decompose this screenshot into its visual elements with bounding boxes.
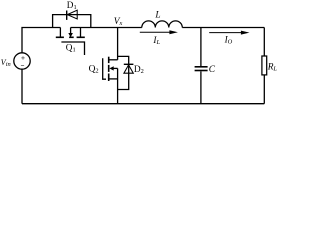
transistor Q2 channel segment 2 (108, 65, 110, 72)
transistor Q1 drain stem (59, 28, 61, 37)
transistor Q2 channel segment 3 (108, 74, 110, 82)
current arrow Io shaft (209, 32, 241, 34)
capacitor C bottom lead (200, 71, 202, 103)
diode D1 loop wire (53, 15, 91, 28)
current arrow IL head (169, 30, 178, 34)
diode D2 triangle (124, 65, 133, 73)
wire top rail middle segment (71, 27, 142, 29)
capacitor C bottom plate (195, 70, 208, 72)
diode D1 triangle (67, 10, 77, 19)
transistor Q2 channel segment 1 (108, 57, 110, 63)
svg-text:C: C (209, 65, 216, 75)
inductor L (142, 21, 183, 28)
capacitor C top plate (195, 66, 208, 68)
resistor RL box (262, 56, 267, 75)
diode D2 bottom lead (118, 65, 129, 90)
wire Vin bottom lead (21, 69, 23, 104)
current arrow IL shaft (140, 31, 171, 33)
wire VX drop to Q2 drain (117, 28, 119, 60)
wire top rail right segment (182, 27, 264, 29)
transistor Q2 body arrow head (109, 66, 113, 70)
diode D1 cathode bar (66, 11, 68, 20)
wire D2 top connection (118, 56, 129, 64)
transistor Q1 channel segment 1 (56, 36, 64, 38)
transistor Q1 body arrow shaft (70, 28, 72, 34)
diode D2 cathode bar (124, 63, 134, 65)
transistor Q2 source lead (117, 68, 119, 103)
wire RL bottom lead (263, 75, 265, 104)
svg-text:L: L (154, 10, 160, 20)
voltage source Vin (14, 53, 30, 69)
transistor Q1 channel segment 3 (77, 36, 85, 38)
minus sign of Vin (21, 64, 24, 66)
wire right branch to RL top (263, 28, 265, 57)
transistor Q1 body arrow head (68, 33, 73, 37)
capacitor C top lead (200, 28, 202, 67)
transistor Q1 gate line with tick (61, 42, 84, 55)
transistor Q2 source bar (109, 78, 118, 80)
transistor Q1 source stem (80, 28, 82, 37)
transistor Q2 body arrow shaft (113, 67, 117, 69)
transistor Q2 gate bar and lead (103, 58, 106, 79)
plus sign of Vin (21, 56, 25, 65)
transistor Q1 channel segment 2 (69, 36, 74, 38)
transistor Q2 drain bar (109, 59, 118, 61)
wire bottom rail (22, 103, 264, 105)
wire Vin top lead to top-left corner and left rail (22, 28, 60, 53)
current arrow Io head (241, 31, 250, 35)
